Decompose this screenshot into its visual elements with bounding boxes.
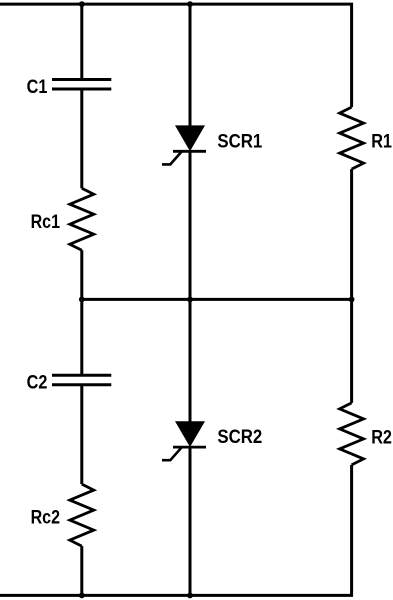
- node bottom-middle junction: [187, 593, 193, 599]
- wire middle rail to SCR2 anode: [189, 299, 192, 422]
- wire SCR2 cathode to bottom rail: [189, 447, 192, 595]
- svg-text:R1: R1: [371, 131, 392, 153]
- capacitor C2: [52, 375, 111, 385]
- wire SCR branch anode SCR1: [189, 4, 192, 127]
- node mid-left junction: [79, 297, 85, 303]
- resistor R2: [340, 403, 364, 465]
- wire Rc1 to middle rail: [80, 250, 83, 299]
- node bottom-left junction: [79, 593, 85, 599]
- wire SCR1 cathode to middle rail: [189, 151, 192, 299]
- svg-text:C2: C2: [27, 372, 48, 394]
- wire middle rail to R2: [350, 299, 353, 403]
- svg-text:C1: C1: [27, 76, 48, 98]
- wire Rc2 to bottom rail: [80, 546, 83, 595]
- svg-text:SCR1: SCR1: [217, 130, 262, 152]
- wire bottom rail: [0, 465, 352, 596]
- svg-text:SCR2: SCR2: [217, 426, 262, 448]
- wire top rail: [0, 4, 352, 107]
- thyristor SCR2: [162, 421, 206, 460]
- resistor R1: [340, 107, 364, 169]
- svg-text:R2: R2: [371, 426, 392, 448]
- wire middle rail to C2: [80, 299, 83, 375]
- wire C1 to Rc1: [80, 89, 83, 188]
- node mid-middle junction: [187, 297, 193, 303]
- svg-text:Rc2: Rc2: [31, 507, 61, 529]
- node top-middle junction: [187, 1, 193, 7]
- wire left branch top segment: [80, 4, 83, 79]
- wire right branch R1 to middle rail: [350, 169, 353, 299]
- wire C2 to Rc2: [80, 385, 83, 484]
- resistor Rc2: [70, 484, 94, 546]
- resistor Rc1: [70, 188, 94, 250]
- svg-text:Rc1: Rc1: [31, 211, 61, 233]
- node top-left junction: [79, 1, 85, 7]
- capacitor C1: [52, 80, 111, 90]
- thyristor SCR1: [162, 125, 206, 164]
- wire middle rail: [82, 298, 352, 301]
- node mid-right junction: [349, 297, 355, 303]
